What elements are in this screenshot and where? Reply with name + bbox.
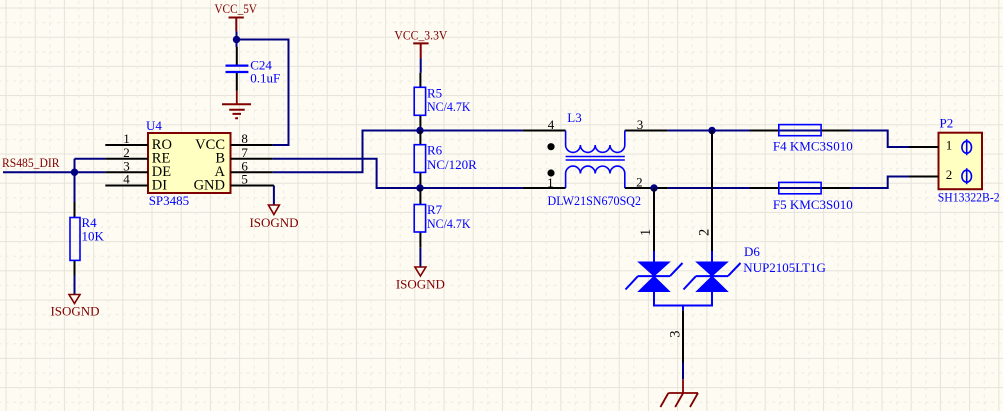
svg-text:DI: DI — [152, 178, 167, 194]
wire F4 to P2 pin1 — [850, 131, 909, 148]
pin 2 RE — [105, 145, 170, 167]
pin 5 GND — [194, 172, 274, 194]
svg-text:2: 2 — [946, 167, 953, 182]
connector P2 — [938, 115, 1000, 204]
pin 4 DI — [105, 172, 167, 194]
pin 7 B — [215, 145, 272, 167]
svg-text:NC/4.7K: NC/4.7K — [427, 216, 471, 231]
svg-text:0.1uF: 0.1uF — [250, 71, 280, 86]
resistor R5 — [414, 73, 471, 131]
svg-text:4: 4 — [123, 172, 130, 187]
node junction RS485_DIR — [71, 169, 78, 176]
svg-text:5: 5 — [241, 172, 248, 187]
wire R7 to ISOGND — [419, 248, 421, 267]
wire VCC_5V node — [237, 31, 289, 145]
svg-text:4: 4 — [548, 117, 555, 132]
capacitor C24 — [226, 47, 281, 91]
pin 3 DE — [105, 158, 171, 180]
op-amp U4 body — [148, 133, 231, 193]
svg-text:ISOGND: ISOGND — [396, 277, 445, 292]
wire L3 pin3 to F4 — [668, 130, 750, 132]
wire L3 pin2 to F5 — [668, 187, 750, 189]
svg-text:2: 2 — [696, 229, 712, 236]
wire VCC_3.3V to R5 — [420, 58, 422, 73]
wire R4 to ISOGND — [74, 276, 76, 295]
wire F5 to P2 pin2 — [850, 177, 909, 189]
svg-text:1: 1 — [547, 175, 554, 190]
transistor D6 dual TVS diode — [626, 131, 826, 311]
node junction R6/R7 — [416, 184, 423, 191]
node junction at C24 top — [233, 36, 240, 43]
svg-text:NUP2105LT1G: NUP2105LT1G — [743, 260, 826, 275]
power port ISOGND (R7) — [396, 267, 445, 292]
fuse F5 — [750, 182, 853, 212]
wire pin5 to ISOGND — [273, 186, 275, 205]
svg-text:D6: D6 — [744, 244, 760, 259]
svg-text:R7: R7 — [427, 202, 443, 217]
svg-text:F5 KMC3S010: F5 KMC3S010 — [773, 197, 853, 212]
svg-text:L3: L3 — [567, 110, 581, 125]
pin 1 RO — [105, 131, 172, 153]
power port VCC_5V — [214, 1, 257, 32]
wire top row to L3 — [420, 130, 523, 132]
node junction R5/R6 — [416, 127, 423, 134]
power port ISOGND (U4) — [249, 205, 298, 230]
resistor R4 — [70, 202, 105, 276]
wire bottom row to L3 — [420, 187, 523, 189]
svg-text:GND: GND — [194, 178, 225, 194]
pin 1 of P2 — [909, 138, 972, 156]
pin 8 VCC — [195, 131, 273, 153]
svg-text:3: 3 — [637, 117, 644, 132]
svg-text:NC/120R: NC/120R — [427, 157, 477, 172]
wire A net (pin6 to top row) — [273, 131, 420, 173]
svg-text:P2: P2 — [940, 115, 954, 130]
node junction F4 row / D6 pin2 — [708, 127, 715, 134]
resistor R7 — [414, 188, 471, 248]
svg-text:3: 3 — [667, 331, 683, 338]
resistor R6 — [414, 131, 477, 189]
wire RS485_DIR — [3, 159, 105, 202]
svg-text:VCC_5V: VCC_5V — [214, 1, 257, 16]
pin 6 A — [215, 158, 273, 180]
svg-text:1: 1 — [638, 229, 654, 236]
wire B net (pin7 to bottom row) — [273, 159, 420, 188]
inductor L3 common-mode choke — [523, 110, 668, 208]
svg-text:10K: 10K — [82, 228, 105, 243]
ground earth symbol bottom — [660, 379, 698, 407]
svg-text:SP3485: SP3485 — [149, 193, 189, 208]
svg-text:U4: U4 — [146, 118, 162, 133]
svg-text:ISOGND: ISOGND — [249, 215, 298, 230]
svg-text:DLW21SN670SQ2: DLW21SN670SQ2 — [548, 193, 642, 208]
svg-text:ISOGND: ISOGND — [50, 303, 99, 318]
svg-text:VCC_3.3V: VCC_3.3V — [394, 27, 448, 42]
svg-text:NC/4.7K: NC/4.7K — [427, 99, 471, 114]
pin 3 of D6 — [667, 310, 683, 362]
ground under C24 — [222, 91, 251, 119]
node junction F5 row / D6 pin1 — [650, 184, 657, 191]
power port ISOGND (R4) — [50, 295, 99, 319]
svg-text:SH13322B-2: SH13322B-2 — [938, 190, 1000, 205]
wire D6 pin3 to ground — [682, 363, 684, 380]
pin 2 of P2 — [909, 167, 972, 184]
svg-text:R6: R6 — [427, 143, 443, 158]
svg-text:1: 1 — [946, 138, 953, 153]
fuse F4 — [750, 125, 853, 154]
svg-text:RS485_DIR: RS485_DIR — [2, 155, 60, 170]
svg-text:F4 KMC3S010: F4 KMC3S010 — [773, 139, 853, 154]
power port VCC_3.3V — [394, 27, 448, 58]
svg-text:2: 2 — [636, 175, 643, 190]
svg-text:R5: R5 — [427, 85, 442, 100]
